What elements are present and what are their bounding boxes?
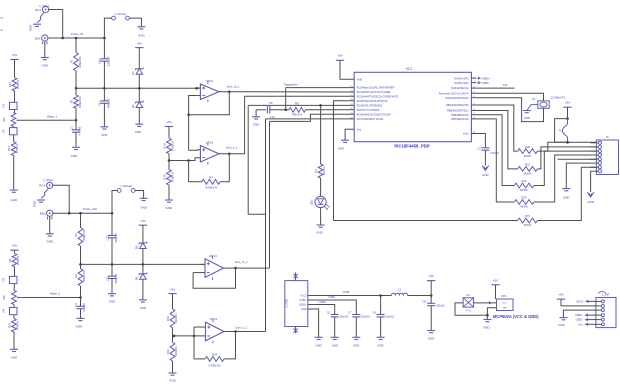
svg-text:R13: R13: [166, 348, 170, 354]
svg-text:GND: GND: [482, 173, 488, 177]
svg-text:USB2+: USB2+: [482, 77, 491, 80]
connector J_SIG2a pins: [117, 189, 121, 193]
capacitor C5: [266, 106, 268, 113]
svg-text:GND: GND: [377, 344, 383, 348]
capacitor C13: [111, 213, 113, 235]
resistor R24: [205, 357, 224, 362]
svg-text:GND: GND: [428, 337, 434, 341]
wire: [198, 87, 201, 89]
ground GND (J_SIG2a): [140, 197, 148, 199]
connector J3 pins: [591, 142, 599, 144]
svg-text:100n/16: 100n/16: [339, 316, 348, 319]
resistor R1: [74, 52, 79, 71]
resistor R18: [168, 161, 170, 170]
wire: [168, 185, 170, 200]
svg-text:PGD: PGD: [578, 324, 583, 326]
svg-text:R14: R14: [162, 143, 166, 149]
wire: [194, 326, 206, 328]
wire: [111, 238, 113, 265]
svg-text:VNB: VNB: [357, 78, 362, 81]
svg-text:Probe_IN2: Probe_IN2: [83, 207, 97, 211]
wire: [256, 109, 266, 111]
svg-text:GND: GND: [76, 325, 84, 329]
wire: [13, 156, 15, 191]
wire: [320, 105, 322, 164]
svg-text:R3: R3: [70, 99, 74, 103]
wire RB5 to R22: [476, 111, 517, 169]
wire: [537, 147, 596, 169]
svg-text:GND: GND: [253, 122, 259, 126]
svg-text:R6: R6: [74, 274, 78, 278]
svg-text:9k/5%: 9k/5%: [524, 223, 532, 227]
wire: [537, 167, 596, 220]
node: [430, 294, 433, 297]
svg-text:D2: D2: [131, 104, 135, 108]
svg-text:RC5/TX/TY/A/TBO4: RC5/TX/TY/A/TBO4: [357, 109, 380, 112]
node wiper1: [75, 119, 78, 122]
svg-text:GND: GND: [138, 34, 144, 38]
ground GND: [486, 315, 488, 319]
RCA jack J_SIG1: [43, 6, 49, 12]
wire: [138, 74, 140, 88]
wire RB6 to R21: [476, 115, 514, 186]
svg-text:GND: GND: [135, 130, 141, 134]
capacitor C15: [111, 264, 113, 276]
IC OP1 box: [497, 299, 514, 311]
capacitor C11: [103, 88, 105, 101]
svg-text:R20: R20: [3, 295, 6, 300]
svg-text:RCA: RCA: [35, 8, 41, 12]
wire feedback loop: [220, 154, 229, 182]
wire: [174, 335, 206, 337]
wire: [112, 191, 118, 214]
svg-text:100n/16: 100n/16: [436, 305, 445, 308]
ground GND (J3 pin8): [590, 171, 592, 192]
svg-text:Wiper_1: Wiper_1: [47, 115, 58, 119]
svg-text:J_USB: J_USB: [284, 299, 288, 308]
svg-text:GND: GND: [338, 147, 344, 151]
svg-text:JP2: JP2: [3, 129, 6, 134]
svg-text:4.7u: 4.7u: [269, 115, 275, 119]
svg-text:USB2-: USB2-: [300, 299, 307, 302]
wire feedback loop OP14: [193, 327, 195, 359]
svg-text:+5V: +5V: [493, 278, 500, 282]
node: [566, 117, 569, 120]
svg-text:4.53k/1%: 4.53k/1%: [208, 363, 220, 367]
ground GND: [135, 123, 143, 125]
wire: [236, 267, 270, 269]
svg-text:RA5/AN4/SS1/HLVD: RA5/AN4/SS1/HLVD: [445, 97, 468, 100]
svg-text:MCLR: MCLR: [577, 301, 584, 304]
svg-text:R19: R19: [7, 322, 11, 328]
svg-text:999p/16: 999p/16: [114, 273, 118, 283]
connector J_ISP: [596, 298, 616, 328]
ground GND: [72, 146, 80, 148]
svg-text:220/1%: 220/1%: [16, 79, 20, 89]
resistor R19: [12, 319, 17, 332]
svg-text:Sum_ch_2: Sum_ch_2: [235, 260, 248, 264]
svg-text:RC4/D2OUT/PNB/SS2: RC4/D2OUT/PNB/SS2: [357, 105, 383, 108]
wire: [169, 158, 200, 161]
wire: [334, 220, 518, 222]
connector J_SIG1a pins: [112, 16, 116, 20]
node: [193, 335, 196, 338]
svg-text:R7: R7: [209, 175, 213, 179]
wire feedback OP11: [189, 95, 198, 114]
node: [173, 335, 176, 338]
svg-text:C3: C3: [74, 303, 78, 307]
svg-text:9k/5%: 9k/5%: [524, 154, 532, 158]
wire: [49, 10, 63, 39]
wire feedback OP13: [193, 268, 235, 288]
wire J3 pin5: [558, 158, 597, 160]
svg-text:VEE: VEE: [503, 307, 508, 309]
connector J_ISP pins: [596, 300, 601, 302]
resistor R9: [12, 253, 17, 266]
wire: [75, 108, 77, 120]
svg-text:R28: R28: [525, 145, 530, 149]
wire: [135, 191, 144, 199]
ground GND (J_SIG1a): [137, 26, 145, 28]
ground GND (RCA1 shield): [37, 13, 44, 23]
svg-text:GND: GND: [29, 25, 33, 31]
capacitor C1: [75, 120, 77, 130]
svg-text:R10: R10: [166, 315, 170, 321]
wire: [142, 249, 144, 265]
resistor R4: [318, 164, 323, 178]
net USB2+ arrow: [478, 77, 482, 80]
wire: [75, 71, 77, 88]
svg-text:RB5/AN15/PK/SCL: RB5/AN15/PK/SCL: [447, 110, 469, 113]
svg-text:USB2-: USB2-: [576, 319, 583, 322]
resistor R22: [518, 167, 538, 172]
svg-text:999k/1%: 999k/1%: [82, 270, 86, 281]
svg-text:R16: R16: [8, 81, 12, 87]
svg-text:Sum_ch_1: Sum_ch_1: [227, 85, 240, 89]
op-amp OP12: [200, 146, 219, 163]
wiper arrow 2: [17, 297, 22, 299]
ground GND: [482, 166, 489, 171]
IC U1 right pin stubs: [471, 77, 476, 79]
resistor R2: [80, 213, 82, 227]
svg-text:+5V: +5V: [428, 274, 435, 278]
svg-text:Vusb: Vusb: [463, 133, 469, 136]
svg-text:USB2+: USB2+: [299, 304, 307, 307]
svg-text:+5V: +5V: [12, 244, 19, 248]
svg-text:999p/16: 999p/16: [107, 98, 111, 108]
svg-text:GND: GND: [10, 198, 18, 202]
wire: [14, 250, 16, 253]
svg-text:220/1%: 220/1%: [16, 255, 20, 265]
wire: [200, 263, 205, 265]
wire output: [219, 153, 229, 155]
svg-text:GND: GND: [332, 344, 338, 348]
svg-text:Wiper_2: Wiper_2: [50, 292, 61, 296]
wire: [142, 225, 144, 243]
capacitor C8: [380, 296, 382, 315]
svg-text:9k/5%: 9k/5%: [524, 172, 532, 176]
wire: [172, 294, 174, 309]
svg-text:GND: GND: [109, 300, 115, 304]
svg-text:VUSB: VUSB: [343, 291, 350, 294]
svg-text:L2: L2: [398, 288, 402, 292]
ground GND: [139, 299, 147, 301]
wire: [13, 315, 15, 319]
node: [68, 212, 71, 215]
ground GND (BNC2): [47, 217, 49, 220]
wire mid rail 1: [76, 87, 200, 89]
svg-text:4.7u: 4.7u: [466, 309, 472, 313]
wire: [476, 93, 543, 101]
svg-text:+VCC: +VCC: [300, 295, 307, 298]
svg-text:T1: T1: [558, 130, 561, 133]
svg-text:GND: GND: [587, 200, 593, 204]
wire: [111, 279, 113, 294]
svg-text:100k/1%: 100k/1%: [170, 140, 174, 151]
svg-text:+5V: +5V: [565, 101, 572, 105]
svg-text:999k/1%: 999k/1%: [82, 229, 86, 240]
svg-text:RC1/AN5/C1OUT/AVTL/CREF: RC1/AN5/C1OUT/AVTL/CREF: [357, 91, 391, 94]
svg-text:J_SIG1a: J_SIG1a: [114, 12, 126, 16]
node: [486, 314, 489, 317]
svg-text:RA5/D-/VM2: RA5/D-/VM2: [454, 82, 469, 85]
svg-text:GND: GND: [315, 344, 321, 348]
wire: [476, 98, 543, 122]
inductor L2: [391, 293, 407, 295]
svg-text:D3: D3: [134, 245, 138, 249]
resistor R3: [75, 88, 77, 95]
svg-text:RC6/HA6/SGLT/DQA1/T1OSO: RC6/HA6/SGLT/DQA1/T1OSO: [357, 113, 391, 116]
svg-text:C6: C6: [327, 312, 331, 315]
resistor R10: [170, 309, 175, 328]
svg-text:R22: R22: [525, 163, 530, 167]
wire: [142, 279, 144, 300]
IC U1 PIC18F4458 box: [354, 72, 471, 141]
wire: [474, 302, 497, 304]
node: [187, 159, 190, 162]
wire: [129, 18, 141, 27]
ground GND (RCA2 shield): [41, 188, 48, 198]
wire feedback: [455, 303, 497, 315]
node: [168, 159, 171, 162]
svg-text:GND: GND: [46, 240, 54, 244]
svg-text:GND: GND: [11, 356, 19, 360]
svg-text:JP3: JP3: [3, 277, 6, 282]
wire riser Sum_v_2: [265, 119, 267, 332]
svg-text:OP11: OP11: [206, 79, 214, 83]
ground GND: [563, 310, 596, 318]
svg-text:+5V: +5V: [337, 54, 344, 58]
wire Triggerlevel: [285, 88, 287, 110]
crystal X1: [538, 101, 549, 108]
node: [79, 263, 82, 266]
svg-text:C15: C15: [105, 276, 109, 281]
wire gnd pin: [313, 309, 318, 337]
svg-text:12 MHz/TX: 12 MHz/TX: [551, 95, 566, 99]
svg-text:OP13: OP13: [209, 254, 217, 258]
resistor R21: [514, 183, 534, 188]
svg-text:USB2+: USB2+: [575, 314, 583, 317]
resistor R5: [289, 107, 306, 112]
diode D2: [138, 88, 140, 102]
wire: [534, 155, 597, 202]
svg-text:X1: X1: [532, 97, 536, 101]
net USB2- arrow: [478, 81, 482, 84]
svg-text:PIC18F4458_PDP: PIC18F4458_PDP: [394, 144, 429, 149]
svg-text:100n/16: 100n/16: [385, 316, 394, 319]
wire row RC7: [266, 118, 355, 120]
node wiper2: [79, 296, 82, 299]
connector JP3 pad: [10, 276, 18, 283]
wire: [14, 267, 16, 277]
connector J_USB: [285, 281, 308, 327]
svg-text:D1: D1: [131, 71, 135, 75]
svg-text:VC1: VC1: [406, 67, 413, 71]
wire wiper 2: [22, 297, 80, 299]
svg-text:99k/1%: 99k/1%: [292, 113, 302, 117]
node: [75, 87, 78, 90]
wire: [138, 108, 140, 125]
svg-text:GND: GND: [101, 133, 107, 137]
node Sum_ch_1: [228, 90, 231, 93]
svg-text:270/1%: 270/1%: [15, 320, 19, 330]
svg-text:JP4: JP4: [3, 308, 6, 313]
svg-text:GND: GND: [140, 306, 146, 310]
svg-text:GND: GND: [140, 206, 146, 210]
arrow: [489, 301, 493, 304]
svg-text:RC2/HA4/PTS/OSC2/+CVREF/AVTE: RC2/HA4/PTS/OSC2/+CVREF/AVTE: [357, 95, 399, 98]
svg-text:BNC: BNC: [35, 36, 41, 40]
wire: [430, 306, 432, 331]
capacitor C6: [331, 314, 339, 316]
node: [566, 141, 569, 144]
node: [187, 114, 190, 117]
svg-text:R23: R23: [522, 196, 527, 200]
svg-text:C7: C7: [348, 312, 352, 315]
wire: [471, 134, 485, 148]
svg-text:+5V: +5V: [558, 293, 565, 297]
resistor R70: [518, 218, 538, 223]
svg-text:D4: D4: [134, 276, 138, 280]
svg-text:USB2-: USB2-: [328, 296, 335, 299]
svg-text:OP12: OP12: [206, 140, 214, 144]
svg-text:C8: C8: [373, 312, 377, 315]
svg-text:220p/16: 220p/16: [114, 233, 118, 243]
svg-text:GND: GND: [166, 206, 174, 210]
wire: [320, 208, 322, 225]
svg-text:R1: R1: [70, 59, 74, 63]
resistor R16: [12, 78, 17, 91]
node: [379, 294, 382, 297]
svg-text:RA3/AN3E/Vpp: RA3/AN3E/Vpp: [451, 87, 469, 90]
svg-text:470n/16: 470n/16: [490, 152, 499, 155]
svg-text:GND: GND: [316, 231, 322, 235]
wire: [534, 151, 597, 185]
ground GND: [77, 317, 85, 319]
svg-text:TxD: TxD: [503, 84, 508, 87]
svg-text:999k/1%: 999k/1%: [78, 56, 82, 67]
resistor R17: [11, 142, 16, 156]
svg-text:GND: GND: [483, 326, 489, 330]
wire: [334, 317, 336, 337]
svg-text:C5: C5: [269, 101, 273, 105]
svg-text:220p/16: 220p/16: [107, 56, 111, 66]
wire probe rail 2: [53, 212, 112, 214]
svg-text:VCC: VCC: [503, 303, 508, 305]
connector J3: [596, 140, 618, 175]
capacitor C9: [463, 298, 474, 307]
wire: [104, 18, 111, 38]
svg-text:C11: C11: [98, 101, 102, 106]
capacitor C16: [430, 296, 432, 304]
potentiometer R20: [13, 284, 16, 291]
svg-text:270/1%: 270/1%: [15, 143, 19, 153]
svg-text:100k/1%: 100k/1%: [170, 171, 174, 182]
RCA jack J_SIG2: [47, 182, 53, 188]
capacitor C7: [352, 314, 360, 316]
wire: [198, 94, 201, 96]
node Probe_IN: [61, 37, 64, 40]
svg-text:GND: GND: [41, 64, 49, 68]
wire: [537, 142, 596, 151]
svg-text:GND: GND: [524, 116, 530, 120]
svg-text:RCA: RCA: [39, 184, 45, 188]
svg-text:LED1: LED1: [309, 199, 313, 206]
svg-text:9k/5%: 9k/5%: [520, 205, 528, 209]
op-amp OP14: [206, 322, 225, 341]
svg-text:GND: GND: [563, 196, 569, 200]
svg-text:4.53k/1%: 4.53k/1%: [205, 186, 217, 190]
wire row Sum_ch_1: [229, 91, 354, 93]
svg-text:Raw-want-OSC/CLC/AN-P: Raw-want-OSC/CLC/AN-P: [439, 92, 469, 95]
wire output: [224, 331, 236, 333]
svg-text:J3: J3: [605, 135, 608, 139]
ground GND (J3 pin6): [566, 163, 590, 189]
svg-text:R2: R2: [74, 233, 78, 237]
wire riser Sum_ch_2: [269, 121, 271, 268]
wire: [75, 132, 77, 147]
wire VUSB: [313, 295, 391, 297]
node: [103, 37, 106, 40]
diode D3: [139, 242, 147, 244]
connector JP1 pad: [10, 102, 18, 109]
wiper arrow: [17, 119, 20, 121]
svg-text:GND: GND: [353, 344, 359, 348]
ground GND: [169, 372, 177, 374]
svg-text:RC7/HA6/SDO/T1OS3L: RC7/HA6/SDO/T1OS3L: [357, 118, 384, 121]
node: [566, 141, 569, 144]
svg-text:R9: R9: [8, 258, 12, 262]
ground GND: [331, 336, 339, 338]
svg-text:OP14: OP14: [210, 317, 218, 321]
wire: [103, 61, 105, 88]
wire: [355, 317, 357, 337]
node: [284, 109, 287, 112]
wire probe rail 1: [48, 37, 105, 39]
svg-text:Sum_v_1: Sum_v_1: [226, 145, 238, 149]
wire: [380, 317, 382, 337]
node Sum_ch_2: [234, 267, 237, 270]
wire: [80, 286, 82, 298]
resistor R23: [514, 200, 534, 205]
wire row RC5: [306, 109, 355, 111]
wire: [80, 309, 82, 319]
wire: [103, 103, 105, 127]
ground GND: [377, 336, 385, 338]
svg-text:RB7/KBI3/PGD: RB7/KBI3/PGD: [451, 118, 468, 121]
svg-text:R21: R21: [522, 179, 527, 183]
wire row Sum_v_1: [229, 96, 354, 153]
